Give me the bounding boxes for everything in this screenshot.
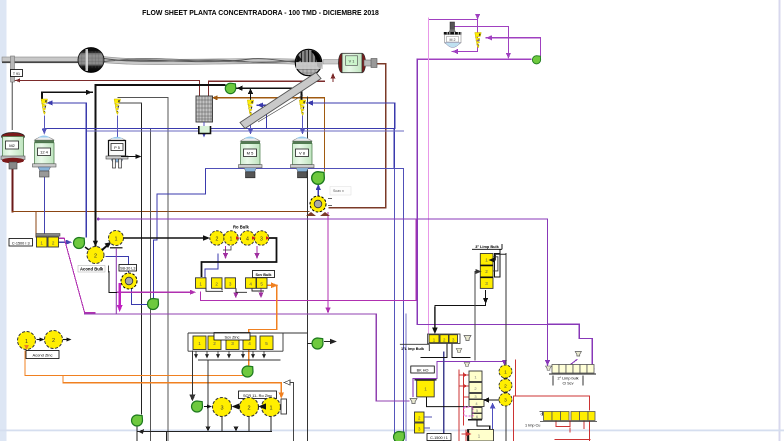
svg-text:3: 3: [229, 282, 232, 287]
svg-text:M2: M2: [9, 143, 15, 148]
svg-text:Acond Zinc: Acond Zinc: [32, 353, 52, 358]
svg-text:1: 1: [40, 241, 43, 246]
svg-text:1: 1: [198, 341, 201, 346]
svg-text:1: 1: [485, 258, 488, 263]
svg-text:5: 5: [260, 282, 263, 287]
svg-text:4: 4: [249, 282, 252, 287]
svg-text:SCR 11- Ro Zinc: SCR 11- Ro Zinc: [243, 393, 272, 398]
svg-text:3: 3: [220, 406, 223, 412]
svg-text:Scv Bulk: Scv Bulk: [255, 273, 272, 277]
svg-text:3: 3: [485, 281, 488, 286]
svg-text:1 Imp Cu: 1 Imp Cu: [525, 424, 540, 428]
svg-text:SB-30 L3: SB-30 L3: [120, 267, 135, 271]
svg-text:2: 2: [504, 384, 507, 390]
svg-text:1: 1: [114, 237, 117, 243]
svg-text:2° Limp bulk: 2° Limp bulk: [558, 377, 579, 381]
svg-text:Ro Bulk: Ro Bulk: [233, 225, 249, 230]
svg-text:FLOW SHEET PLANTA CONCENTRADOR: FLOW SHEET PLANTA CONCENTRADORA - 100 TM…: [142, 10, 379, 17]
svg-text:T 91: T 91: [13, 72, 20, 76]
svg-text:3: 3: [260, 236, 263, 242]
svg-text:5: 5: [265, 341, 268, 346]
svg-text:Scav x: Scav x: [333, 189, 344, 193]
svg-text:G: G: [541, 413, 544, 417]
svg-text:V 8: V 8: [299, 151, 306, 156]
svg-text:C-1500 I 3: C-1500 I 3: [12, 241, 30, 245]
svg-text:Cl Scv: Cl Scv: [563, 382, 574, 386]
svg-text:2: 2: [215, 282, 218, 287]
svg-text:2: 2: [213, 341, 216, 346]
svg-text:3: 3: [504, 398, 507, 404]
svg-text:2: 2: [94, 254, 97, 260]
svg-text:P 5: P 5: [114, 146, 120, 150]
svg-text:1: 1: [269, 406, 272, 412]
svg-text:Acond Bulk: Acond Bulk: [80, 267, 104, 272]
svg-text:2: 2: [216, 236, 219, 242]
svg-text:2: 2: [485, 269, 488, 274]
svg-text:1: 1: [25, 339, 28, 345]
svg-text:V 1: V 1: [349, 60, 355, 64]
svg-text:Scv Zinc: Scv Zinc: [225, 334, 240, 339]
svg-text:1: 1: [504, 370, 507, 376]
svg-text:12 4: 12 4: [40, 150, 49, 155]
svg-text:1: 1: [424, 387, 427, 392]
svg-text:2: 2: [52, 241, 55, 246]
svg-text:1: 1: [199, 282, 202, 287]
svg-text:1°L Imp Bulk: 1°L Imp Bulk: [401, 347, 425, 351]
svg-text:4: 4: [246, 236, 249, 242]
svg-text:M 5: M 5: [247, 151, 254, 156]
svg-text:M 2: M 2: [450, 38, 456, 42]
svg-text:BK HO: BK HO: [417, 369, 429, 373]
svg-text:2: 2: [247, 406, 250, 412]
svg-text:C-1500 I 1: C-1500 I 1: [430, 436, 448, 440]
svg-text:1: 1: [230, 236, 233, 242]
svg-text:4: 4: [248, 341, 251, 346]
svg-text:3° Limp Bulk: 3° Limp Bulk: [475, 244, 499, 249]
svg-text:2: 2: [52, 338, 55, 344]
svg-text:3: 3: [231, 341, 234, 346]
